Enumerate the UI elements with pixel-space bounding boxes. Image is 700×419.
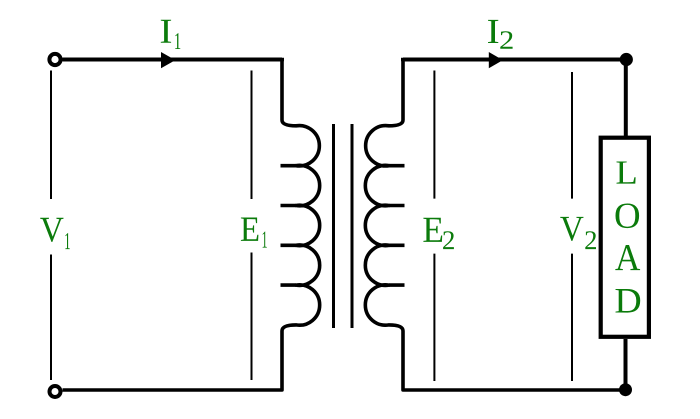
node bottom-right junction dot [619, 383, 632, 396]
load box [601, 138, 649, 337]
voltmeter line V1 [50, 71, 52, 381]
wire load bottom lead [624, 339, 628, 390]
wire top secondary [403, 58, 626, 62]
node top-right junction dot [620, 53, 633, 66]
wire top primary [63, 58, 283, 62]
terminal top-left [49, 54, 60, 65]
arrow I1 [161, 52, 175, 68]
label V2 [560, 217, 583, 241]
label E1 [241, 218, 259, 241]
wire primary vertical + winding L1 + bottom [63, 60, 320, 391]
arrow I2 [489, 52, 503, 68]
label E2 [423, 218, 442, 242]
wire secondary vertical + winding L2 + bottom [365, 60, 625, 391]
core line left [332, 124, 335, 328]
voltmeter line V2 [571, 72, 573, 381]
voltmeter line E1 [251, 71, 253, 381]
label I1 [161, 20, 171, 43]
winding L2 cusp ticks [389, 166, 405, 285]
terminal bottom-left [50, 386, 61, 397]
winding L1 cusp ticks [281, 166, 297, 285]
wire load top lead [624, 60, 628, 137]
voltmeter line E2 [433, 71, 435, 382]
core line right [351, 124, 354, 328]
label I2 [488, 20, 498, 43]
label LOAD [617, 162, 636, 184]
label V1 [40, 218, 63, 242]
